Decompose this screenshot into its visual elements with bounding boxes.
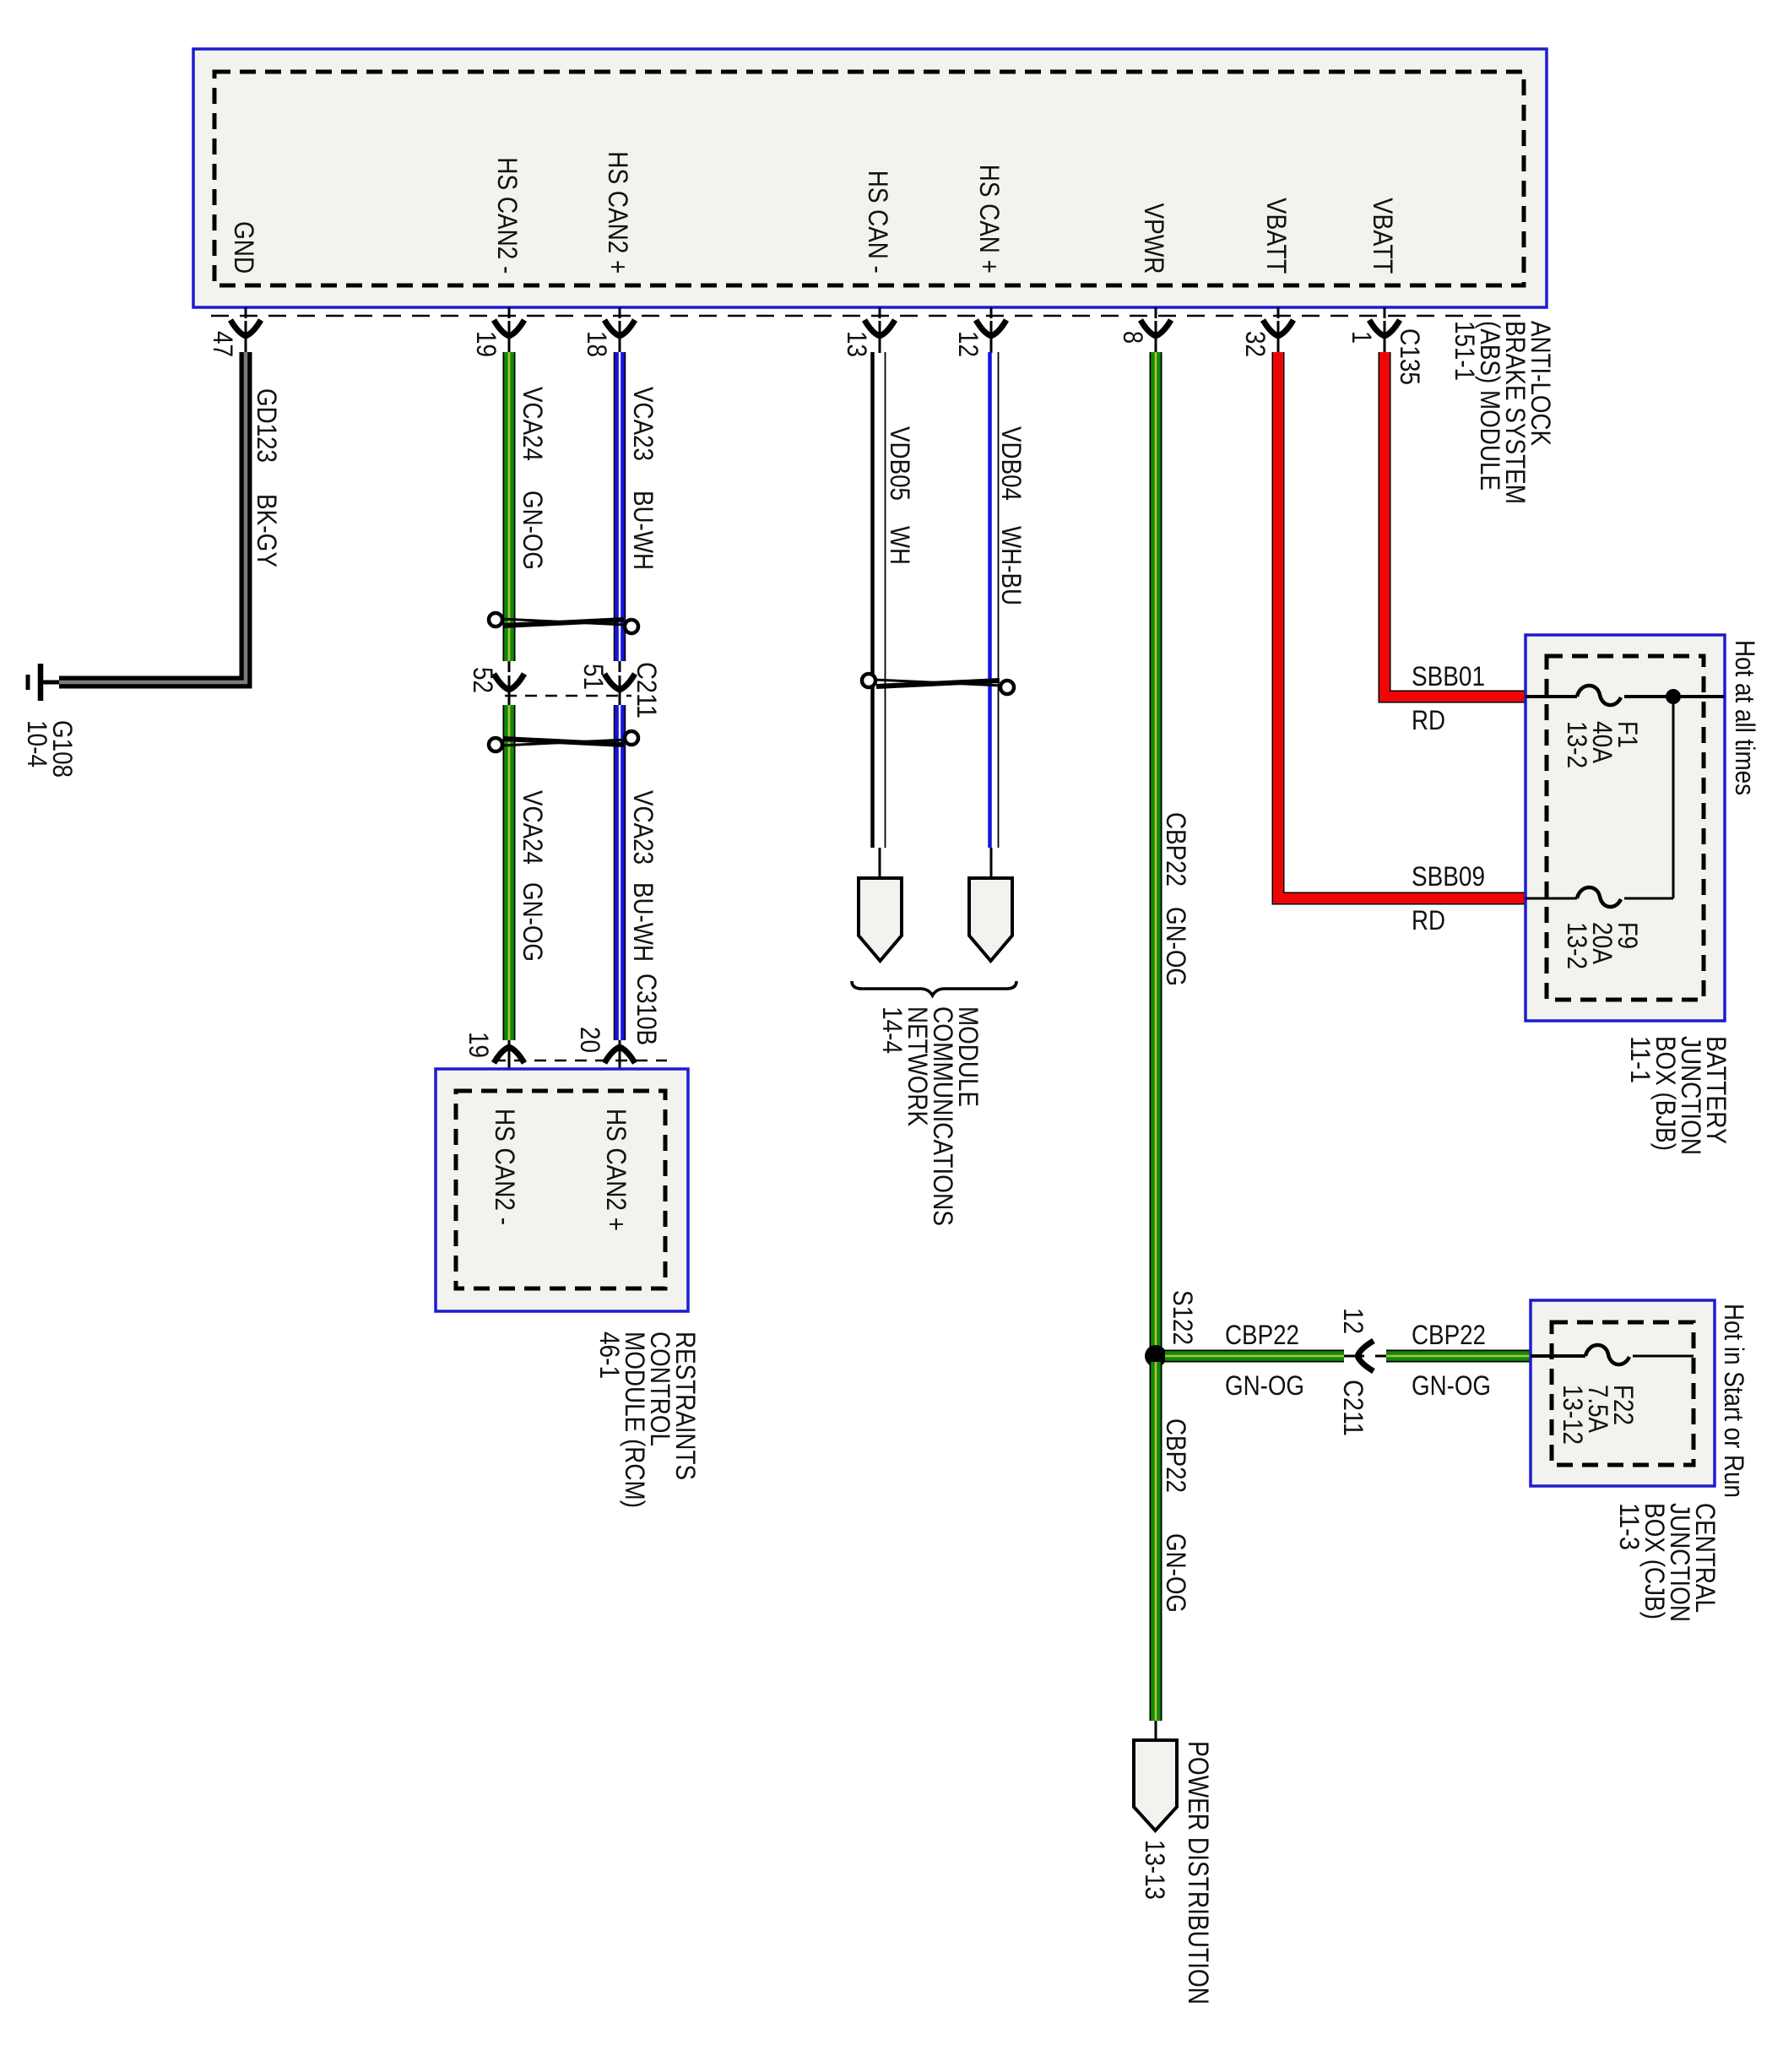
svg-text:RD: RD (1412, 905, 1445, 936)
wire CBP22 GN-OG pin 8 upper (1150, 352, 1162, 1350)
connector C310B pin 20 arrow (604, 1040, 635, 1091)
connector C135 pin 18 arrow (604, 307, 635, 353)
off-page arrow POWER DISTRIBUTION (1134, 1721, 1177, 1831)
module BJB box (1526, 635, 1725, 1021)
svg-text:GN-OG: GN-OG (1412, 1370, 1491, 1401)
svg-text:HS CAN2 -: HS CAN2 - (490, 1109, 520, 1225)
svg-text:BU-WH: BU-WH (628, 491, 658, 570)
off-page arrow pin 13 (859, 848, 902, 961)
svg-text:SBB09: SBB09 (1412, 861, 1485, 892)
svg-text:32: 32 (1240, 331, 1271, 357)
fuse F1 (1577, 686, 1621, 705)
module ABS box (193, 49, 1547, 307)
svg-text:13-12: 13-12 (1558, 1385, 1588, 1445)
connector C135 pin 12 arrow (976, 307, 1006, 353)
svg-text:VBATT: VBATT (1368, 198, 1398, 274)
wire label CBP22 GN-OG pin 8 (1161, 812, 1191, 986)
wire label VCA23 BU-WH lower (628, 790, 658, 962)
svg-text:GND: GND (229, 221, 259, 274)
svg-text:46-1: 46-1 (594, 1332, 625, 1379)
twisted pair crossing upper (489, 613, 502, 626)
fuse F1 wire inside BJB (1526, 695, 1577, 698)
svg-text:GN-OG: GN-OG (1161, 907, 1191, 986)
wire label VCA23 BU-WH upper (628, 387, 658, 570)
svg-text:GN-OG: GN-OG (1225, 1370, 1304, 1401)
wire label VDB04 WH-BU (996, 426, 1027, 605)
svg-text:151-1: 151-1 (1450, 321, 1480, 381)
fuse F22 wire inside CJB (1531, 1354, 1585, 1358)
svg-text:13-2: 13-2 (1562, 721, 1592, 768)
connector C135 pin 1 arrow (1369, 307, 1400, 353)
svg-text:12: 12 (953, 331, 984, 357)
module CJB box (1531, 1300, 1715, 1486)
wire between fuses in BJB (1672, 697, 1675, 898)
connector C135 dashed line (211, 315, 1524, 317)
label MODULE COMMUNICATIONS NETWORK 14-4 (877, 1006, 984, 1226)
wire VDB04 WH-BU pin 12 (988, 352, 992, 848)
svg-text:HS CAN -: HS CAN - (863, 171, 893, 274)
connector C135 pin 19 arrow (494, 307, 524, 353)
wire VCA23 BU-WH pin 18 lower segment (614, 705, 626, 1040)
connector C310B dashed line (494, 1060, 667, 1062)
junction dot in BJB (1666, 689, 1681, 704)
module BJB label BATTERY JUNCTION BOX (BJB) 11-1 (1625, 1036, 1732, 1155)
svg-text:10-4: 10-4 (22, 720, 52, 768)
svg-text:BU-WH: BU-WH (628, 882, 658, 962)
connector C135 pin 32 arrow (1263, 307, 1293, 353)
svg-text:WH-BU: WH-BU (996, 526, 1027, 605)
fuse label F1 40A 13-2 (1562, 721, 1643, 768)
wire label GD123 BK-GY (252, 388, 282, 567)
svg-text:VPWR: VPWR (1139, 203, 1169, 274)
connector C135 pin 8 arrow (1141, 307, 1171, 353)
svg-text:S122: S122 (1168, 1290, 1198, 1345)
fuse label F22 7.5A 13-12 (1558, 1385, 1639, 1445)
svg-text:CBP22: CBP22 (1225, 1320, 1299, 1350)
wire SBB09 RD pin 32 (1278, 352, 1526, 898)
connector C211 pin 51 arrow (604, 661, 635, 705)
wire CBP22 GN-OG horizontal right of C211 (1386, 1350, 1531, 1363)
svg-text:18: 18 (582, 331, 612, 357)
connector C211 pin 52 arrow (494, 661, 524, 705)
twisted pair crossing lower (489, 738, 502, 751)
svg-text:13: 13 (842, 331, 872, 357)
svg-text:47: 47 (208, 331, 238, 357)
svg-text:Hot at all times: Hot at all times (1730, 640, 1760, 795)
svg-text:POWER DISTRIBUTION: POWER DISTRIBUTION (1182, 1741, 1214, 2004)
svg-text:HS CAN2 -: HS CAN2 - (492, 157, 523, 274)
connector C211 dashed line (505, 695, 631, 697)
svg-text:8: 8 (1118, 331, 1148, 344)
connector C211 pin 12 arrow (1344, 1341, 1386, 1371)
ground label G108 10-4 (22, 720, 78, 778)
svg-text:VDB04: VDB04 (996, 426, 1027, 501)
fuse F9 wire inside BJB (1526, 898, 1577, 900)
wire CBP22 GN-OG horizontal left of C211 (1165, 1350, 1344, 1363)
twisted pair crossing HS CAN (862, 674, 875, 687)
connector C135 pin 13 arrow (864, 307, 895, 353)
connector C135 pin 47 arrow (230, 307, 261, 353)
svg-text:C135: C135 (1395, 328, 1425, 385)
svg-text:19: 19 (471, 331, 501, 357)
svg-text:12: 12 (1338, 1308, 1368, 1334)
module RCM box (436, 1069, 688, 1311)
wire VCA23 BU-WH pin 18 upper segment (614, 352, 626, 661)
svg-text:RD: RD (1412, 705, 1445, 735)
svg-text:11-1: 11-1 (1625, 1036, 1656, 1083)
splice S122 (1145, 1345, 1167, 1367)
label SBB09 RD (1412, 861, 1485, 936)
svg-text:C211: C211 (631, 662, 662, 719)
svg-text:VDB05: VDB05 (885, 426, 915, 501)
svg-text:C211: C211 (1338, 1380, 1368, 1436)
wire label CBP22 GN-OG below splice (1161, 1418, 1191, 1613)
svg-text:52: 52 (468, 667, 498, 693)
svg-text:VBATT: VBATT (1261, 198, 1292, 274)
wire VCA24 GN-OG pin 19 upper segment (503, 352, 516, 661)
fuse F22 (1585, 1345, 1629, 1364)
svg-text:SBB01: SBB01 (1412, 661, 1485, 692)
svg-text:13-2: 13-2 (1562, 922, 1592, 969)
svg-text:CBP22: CBP22 (1161, 1418, 1191, 1493)
svg-text:14-4: 14-4 (877, 1006, 908, 1054)
wire VDB05 WH pin 13 (870, 352, 875, 848)
module CJB label CENTRAL JUNCTION BOX (CJB) 11-3 (1614, 1503, 1721, 1622)
svg-text:WH: WH (885, 526, 915, 565)
off-page arrow pin 12 (969, 848, 1012, 961)
svg-text:GN-OG: GN-OG (1161, 1533, 1191, 1613)
svg-text:CBP22: CBP22 (1412, 1320, 1486, 1350)
svg-text:HS CAN +: HS CAN + (974, 165, 1005, 274)
svg-text:GN-OG: GN-OG (518, 491, 548, 570)
ground G108 symbol (28, 664, 59, 701)
svg-text:GD123: GD123 (252, 388, 282, 463)
svg-text:VCA24: VCA24 (518, 387, 548, 461)
svg-text:Hot in Start or Run: Hot in Start or Run (1719, 1304, 1749, 1498)
brace under off-page arrows (852, 981, 1016, 995)
fuse F9 (1577, 887, 1621, 907)
wire SBB01 RD pin 1 (1385, 352, 1526, 697)
module RCM label RESTRAINTS CONTROL MODULE (RCM) 46-1 (594, 1332, 701, 1508)
connector C310B pin 19 arrow (494, 1040, 524, 1091)
svg-text:C310B: C310B (631, 974, 662, 1045)
svg-text:VCA24: VCA24 (518, 790, 548, 865)
wire VCA24 GN-OG pin 19 lower segment (503, 705, 516, 1040)
svg-text:VCA23: VCA23 (628, 387, 658, 461)
svg-text:20: 20 (575, 1027, 605, 1053)
svg-text:1: 1 (1347, 331, 1377, 344)
wire label VCA24 GN-OG lower (518, 790, 548, 962)
svg-text:51: 51 (578, 664, 609, 690)
svg-text:13-13: 13-13 (1140, 1840, 1170, 1900)
wire GD123 BK-GY from pin 47 (59, 352, 246, 682)
svg-text:GN-OG: GN-OG (518, 882, 548, 962)
wire CBP22 GN-OG below splice (1150, 1362, 1162, 1721)
module ABS label ANTI-LOCK BRAKE SYSTEM (ABS) MODULE 151-1 (1450, 321, 1556, 504)
svg-text:HS CAN2 +: HS CAN2 + (601, 1109, 631, 1231)
svg-text:BK-GY: BK-GY (252, 494, 282, 567)
svg-text:19: 19 (463, 1032, 494, 1058)
svg-text:VCA23: VCA23 (628, 790, 658, 865)
svg-text:11-3: 11-3 (1614, 1503, 1645, 1550)
wire label VDB05 WH (885, 426, 915, 565)
svg-text:HS CAN2 +: HS CAN2 + (603, 151, 633, 274)
wire label VCA24 GN-OG upper (518, 387, 548, 570)
label SBB01 RD (1412, 661, 1485, 735)
fuse label F9 20A 13-2 (1562, 922, 1643, 969)
svg-text:CBP22: CBP22 (1161, 812, 1191, 887)
